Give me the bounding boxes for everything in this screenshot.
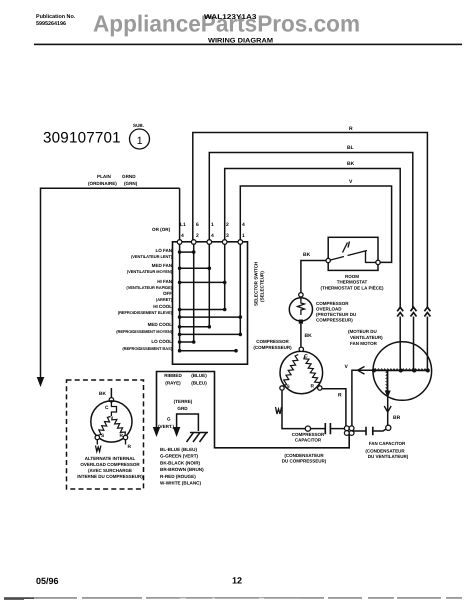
svg-text:DU VENTILATEUR): DU VENTILATEUR) xyxy=(368,454,409,459)
svg-text:SELECTOR SWITCH: SELECTOR SWITCH xyxy=(254,261,259,306)
plug blade arrow (ground pin) xyxy=(173,427,180,437)
fan motor main winding xyxy=(374,370,429,372)
svg-text:4: 4 xyxy=(211,233,214,239)
svg-text:R: R xyxy=(338,393,342,399)
compressor capacitor C1 xyxy=(325,423,330,434)
svg-text:RIBBED: RIBBED xyxy=(164,373,182,378)
connector chevrons on R wire xyxy=(424,307,430,316)
svg-text:COMPRESSOR: COMPRESSOR xyxy=(316,301,349,306)
svg-text:2: 2 xyxy=(226,222,229,228)
svg-text:1: 1 xyxy=(242,233,245,239)
switch internal common vertical xyxy=(179,244,181,351)
svg-text:Publication No.: Publication No. xyxy=(36,14,76,20)
svg-text:R: R xyxy=(311,384,315,390)
fan capacitor terminal xyxy=(386,425,391,430)
terminal circle 3 xyxy=(222,240,227,245)
overload internal element xyxy=(298,297,305,315)
svg-text:ROOM: ROOM xyxy=(345,274,359,279)
svg-text:05/96: 05/96 xyxy=(36,576,59,586)
svg-text:COMPRESSEUR): COMPRESSEUR) xyxy=(316,318,353,323)
connector arrow on BR wire xyxy=(384,406,391,412)
svg-text:COMPRESSOR: COMPRESSOR xyxy=(256,339,289,344)
selector terminal labels row 1: L1 6 1 2 4 xyxy=(180,222,245,228)
svg-text:(VENTILATEUR MOYEN): (VENTILATEUR MOYEN) xyxy=(127,269,173,274)
overload top terminal xyxy=(299,293,303,297)
svg-text:5995264196: 5995264196 xyxy=(36,21,66,27)
svg-text:(AVEC SURCHARGE: (AVEC SURCHARGE xyxy=(88,468,132,473)
terminal circle L1 xyxy=(177,240,182,245)
svg-text:PLAIN: PLAIN xyxy=(97,174,111,179)
switch internal vertical from terminal 4 xyxy=(208,244,210,327)
wire S to compressor capacitor (W) xyxy=(282,390,305,428)
quick-connect junction cluster xyxy=(344,426,354,436)
compressor capacitor terminal xyxy=(305,426,310,431)
svg-text:LO COOL: LO COOL xyxy=(151,339,172,344)
wire fan capacitor to BR terminal xyxy=(373,429,387,431)
svg-text:(ORDINAIRE): (ORDINAIRE) xyxy=(88,181,117,186)
svg-text:C: C xyxy=(105,405,109,411)
svg-text:L1: L1 xyxy=(180,222,186,228)
compressor top terminal C xyxy=(299,347,303,351)
wire BK chevron to fan motor xyxy=(399,317,401,370)
label RIBBED (RAYE) xyxy=(164,373,182,386)
winding tap dots xyxy=(399,369,403,373)
alternate winding right xyxy=(112,417,126,436)
label (CONDENSATEUR DU COMPRESSEUR) xyxy=(282,453,327,464)
svg-text:R: R xyxy=(128,444,132,450)
thermostat right terminal xyxy=(376,260,380,264)
terminal circle 1 xyxy=(238,240,243,245)
svg-text:HI COOL: HI COOL xyxy=(153,304,172,309)
wire R terminal to junction xyxy=(322,389,346,426)
wire overload to compressor (BK) xyxy=(300,324,302,347)
wire thermostat to overload (BK) xyxy=(301,261,326,293)
wire V junction to fan motor xyxy=(352,370,374,426)
compressor winding left (to S) xyxy=(283,355,298,386)
svg-text:(THERMOSTAT DE LA PIÈCE): (THERMOSTAT DE LA PIÈCE) xyxy=(321,286,384,291)
svg-text:BL: BL xyxy=(347,145,354,151)
wire junction to fan capacitor xyxy=(352,430,366,432)
switch internal vertical from terminal 3 xyxy=(224,244,226,310)
switch internal vertical from terminal 1 xyxy=(239,244,241,334)
contact row HI FAN xyxy=(180,281,225,283)
svg-text:ALTERNATE INTERNAL: ALTERNATE INTERNAL xyxy=(85,456,136,461)
alternate terminal R xyxy=(123,435,127,439)
svg-text:OVERLOAD COMPRESSOR: OVERLOAD COMPRESSOR xyxy=(80,462,140,467)
thermostat switch arm xyxy=(331,251,368,261)
connector chevrons on BK wire xyxy=(397,307,403,316)
alternate compressor dashed box xyxy=(67,380,144,489)
svg-text:(VERT.): (VERT.) xyxy=(158,424,175,429)
svg-text:CAPACITOR: CAPACITOR xyxy=(295,438,322,443)
connector chevrons on BL wire xyxy=(411,307,417,316)
svg-text:(VENTILATEUR RAPIDE): (VENTILATEUR RAPIDE) xyxy=(126,285,172,290)
wire rail R (outer rect) xyxy=(193,133,428,308)
label (BLUE) (BLEU) xyxy=(191,373,207,386)
alternate winding left xyxy=(98,417,111,436)
svg-text:(SELECTEUR): (SELECTEUR) xyxy=(260,271,265,302)
selector terminal labels row 2: 4 2 4 3 1 xyxy=(181,233,245,239)
footer rule xyxy=(4,597,462,599)
thermostat sensor tick xyxy=(343,242,350,253)
alternate compressor top wire stub BK xyxy=(110,388,112,398)
svg-text:(RAYE): (RAYE) xyxy=(165,381,181,386)
svg-text:12: 12 xyxy=(232,576,242,586)
svg-text:(COMPRESSEUR): (COMPRESSEUR) xyxy=(253,345,292,350)
svg-text:FAN MOTOR: FAN MOTOR xyxy=(350,341,378,346)
contact row LO COOL xyxy=(180,341,194,343)
label COMPRESSOR CAPACITOR xyxy=(292,432,325,443)
svg-text:GRD: GRD xyxy=(177,406,188,411)
svg-text:MED FAN: MED FAN xyxy=(152,263,173,268)
svg-text:BR: BR xyxy=(393,415,401,421)
label W xyxy=(276,407,282,414)
contact row MED COOL xyxy=(180,326,210,328)
wire RIBBED drop with labels xyxy=(157,372,215,449)
wire rail V (to thermostat) xyxy=(240,186,391,262)
label ALTERNATE INTERNAL OVERLOAD COMPRESSOR xyxy=(77,456,143,479)
contact row MED FAN xyxy=(180,267,210,269)
svg-text:HI FAN: HI FAN xyxy=(157,279,172,284)
svg-text:309107701: 309107701 xyxy=(43,130,121,147)
fan capacitor C2 xyxy=(366,427,373,436)
svg-text:BR-BROWN (BRUN): BR-BROWN (BRUN) xyxy=(160,467,204,472)
svg-text:DU COMPRESSEUR): DU COMPRESSEUR) xyxy=(282,459,327,464)
svg-text:THERMOSTAT: THERMOSTAT xyxy=(337,280,368,285)
svg-text:R: R xyxy=(349,126,353,132)
svg-text:VENTILATEUR): VENTILATEUR) xyxy=(350,335,383,340)
svg-text:MED COOL: MED COOL xyxy=(148,322,173,327)
svg-text:WIRING DIAGRAM: WIRING DIAGRAM xyxy=(208,38,274,45)
terminal circle 4 xyxy=(207,240,212,245)
alternate terminal S xyxy=(95,435,99,439)
label W xyxy=(96,446,101,452)
compressor terminal R xyxy=(318,386,322,390)
svg-text:3: 3 xyxy=(226,233,229,239)
compressor overload device xyxy=(289,298,312,321)
svg-text:R-RED (ROUGE): R-RED (ROUGE) xyxy=(160,474,196,479)
selector switch box xyxy=(173,242,248,364)
winding exit arrow (filled) xyxy=(385,391,391,399)
svg-text:BL-BLUE (BLEU): BL-BLUE (BLEU) xyxy=(160,447,197,452)
svg-text:1: 1 xyxy=(137,135,143,147)
svg-text:W-WHITE (BLANC): W-WHITE (BLANC) xyxy=(160,481,201,486)
svg-text:(GRN): (GRN) xyxy=(124,181,138,186)
alternate compressor motor xyxy=(91,401,132,442)
label ROOM THERMOSTAT xyxy=(321,274,384,291)
svg-text:G-GREEN (VERT): G-GREEN (VERT) xyxy=(160,454,198,459)
label COMPRESSOR (COMPRESSEUR) xyxy=(253,339,292,350)
svg-text:BK-BLACK (NOIR): BK-BLACK (NOIR) xyxy=(160,460,201,465)
svg-text:4: 4 xyxy=(181,233,184,239)
contact row LO FAN xyxy=(180,251,194,253)
wire: cord top horizontal xyxy=(41,188,180,377)
fan motor M2 xyxy=(373,342,432,401)
connector arrow on fan feed xyxy=(358,367,365,375)
svg-text:(BLUE): (BLUE) xyxy=(191,373,207,378)
corner mark xyxy=(4,598,24,600)
terminal circle 2 xyxy=(191,240,196,245)
stub wire S xyxy=(96,440,98,445)
label COMPRESSOR OVERLOAD xyxy=(316,301,356,323)
svg-text:(TERRE): (TERRE) xyxy=(174,399,193,404)
fan motor auxiliary winding xyxy=(387,371,389,393)
svg-text:GRND: GRND xyxy=(122,174,136,179)
sub revision circle 1 xyxy=(130,129,150,149)
wire capacitor to junction xyxy=(330,428,344,430)
svg-text:(CONDENSATEUR: (CONDENSATEUR xyxy=(284,453,324,458)
svg-text:2: 2 xyxy=(196,233,199,239)
wire to capacitor plate xyxy=(311,428,326,430)
compressor terminal S xyxy=(280,386,284,390)
power cord label PLAIN (ORDINAIRE) xyxy=(88,174,117,186)
svg-text:(REFROIDISSEMENT BAS): (REFROIDISSEMENT BAS) xyxy=(122,346,172,351)
svg-text:FAN CAPACITOR: FAN CAPACITOR xyxy=(369,441,406,446)
plug blade arrow (ribbed) xyxy=(153,427,160,437)
wire BL chevron to fan motor xyxy=(413,317,415,370)
wire L1 drop to selector xyxy=(179,188,181,242)
thermostat box U1 xyxy=(328,237,378,270)
wire junction to bottom bus xyxy=(215,435,350,448)
svg-text:(ARRET): (ARRET) xyxy=(156,297,173,302)
svg-text:(PROTECTEUR DU: (PROTECTEUR DU xyxy=(316,312,356,317)
wire winding to BR terminal xyxy=(387,395,389,425)
contact row to terminal 1 lower xyxy=(180,333,241,335)
svg-text:BK: BK xyxy=(305,333,313,339)
svg-text:(BLEU): (BLEU) xyxy=(191,381,207,386)
svg-text:OFF: OFF xyxy=(163,291,172,296)
overload bottom terminal xyxy=(299,320,303,324)
stub wire R xyxy=(125,440,127,445)
svg-text:6: 6 xyxy=(196,222,199,228)
svg-text:WAL123Y1A3: WAL123Y1A3 xyxy=(204,14,257,21)
switch internal vertical from terminal 2 xyxy=(193,244,195,342)
ground branch wire xyxy=(177,414,199,431)
svg-text:(MOTEUR DU: (MOTEUR DU xyxy=(348,329,377,334)
svg-text:BK: BK xyxy=(99,391,106,397)
wire R chevron to fan motor xyxy=(426,317,428,370)
contact row bottom common xyxy=(180,350,236,352)
power cord label GRND (GRN) xyxy=(122,174,138,186)
label FAN MOTOR (MOTEUR DU VENTILATEUR) xyxy=(348,329,383,346)
svg-text:(REFROIDISSEMENT ELEVE): (REFROIDISSEMENT ELEVE) xyxy=(118,310,173,315)
wire color legend xyxy=(160,447,204,486)
svg-text:SUB.: SUB. xyxy=(133,123,144,128)
svg-text:4: 4 xyxy=(242,222,245,228)
selector row labels xyxy=(116,248,172,351)
wire rail BK xyxy=(225,169,401,309)
svg-text:BK: BK xyxy=(303,252,311,258)
svg-text:COMPRESSOR: COMPRESSOR xyxy=(292,432,325,437)
svg-text:1: 1 xyxy=(211,222,214,228)
header rule xyxy=(34,44,462,46)
svg-text:INTERNE DU COMPRESSEUR): INTERNE DU COMPRESSEUR) xyxy=(77,474,143,479)
svg-text:(VENTILATEUR LENT): (VENTILATEUR LENT) xyxy=(131,254,173,259)
compressor winding right (to R) xyxy=(304,356,320,386)
svg-text:BK: BK xyxy=(347,161,355,167)
contact row to terminal 1 upper xyxy=(180,316,241,318)
thermostat right contact L xyxy=(366,251,377,263)
contact row HI COOL xyxy=(180,309,225,311)
thermostat left terminal xyxy=(326,258,330,262)
plug blade arrow (left line cord) xyxy=(37,377,45,387)
svg-text:(CONDENSATEUR: (CONDENSATEUR xyxy=(365,449,405,454)
svg-text:(REFROIDISSEMENT MOYEN): (REFROIDISSEMENT MOYEN) xyxy=(116,329,172,334)
label (CONDENSATEUR DU VENTILATEUR) xyxy=(365,449,408,460)
svg-text:G: G xyxy=(167,417,171,422)
svg-text:OVERLOAD: OVERLOAD xyxy=(316,307,342,312)
internal overload element xyxy=(111,402,116,416)
svg-text:OR (OR): OR (OR) xyxy=(152,227,171,232)
svg-text:LO FAN: LO FAN xyxy=(155,248,172,253)
compressor motor M1 xyxy=(280,351,323,394)
chassis ground xyxy=(187,433,209,443)
label SELECTOR SWITCH (SELECTEUR) vertical xyxy=(254,261,265,306)
alternate compressor top terminal xyxy=(109,398,113,402)
wire rail BL xyxy=(209,153,412,309)
